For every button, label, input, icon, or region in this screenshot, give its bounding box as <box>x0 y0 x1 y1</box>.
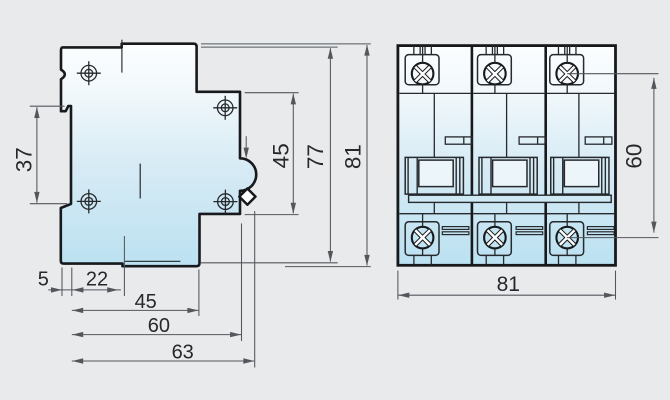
svg-text:22: 22 <box>86 269 108 291</box>
svg-text:60: 60 <box>621 144 646 169</box>
svg-text:45: 45 <box>135 291 157 313</box>
svg-text:63: 63 <box>172 342 194 364</box>
svg-text:81: 81 <box>341 144 366 169</box>
svg-text:77: 77 <box>303 144 328 169</box>
svg-text:60: 60 <box>148 315 170 337</box>
svg-text:37: 37 <box>12 147 37 172</box>
svg-text:5: 5 <box>38 268 49 290</box>
svg-text:81: 81 <box>497 273 520 296</box>
svg-text:45: 45 <box>268 143 293 168</box>
